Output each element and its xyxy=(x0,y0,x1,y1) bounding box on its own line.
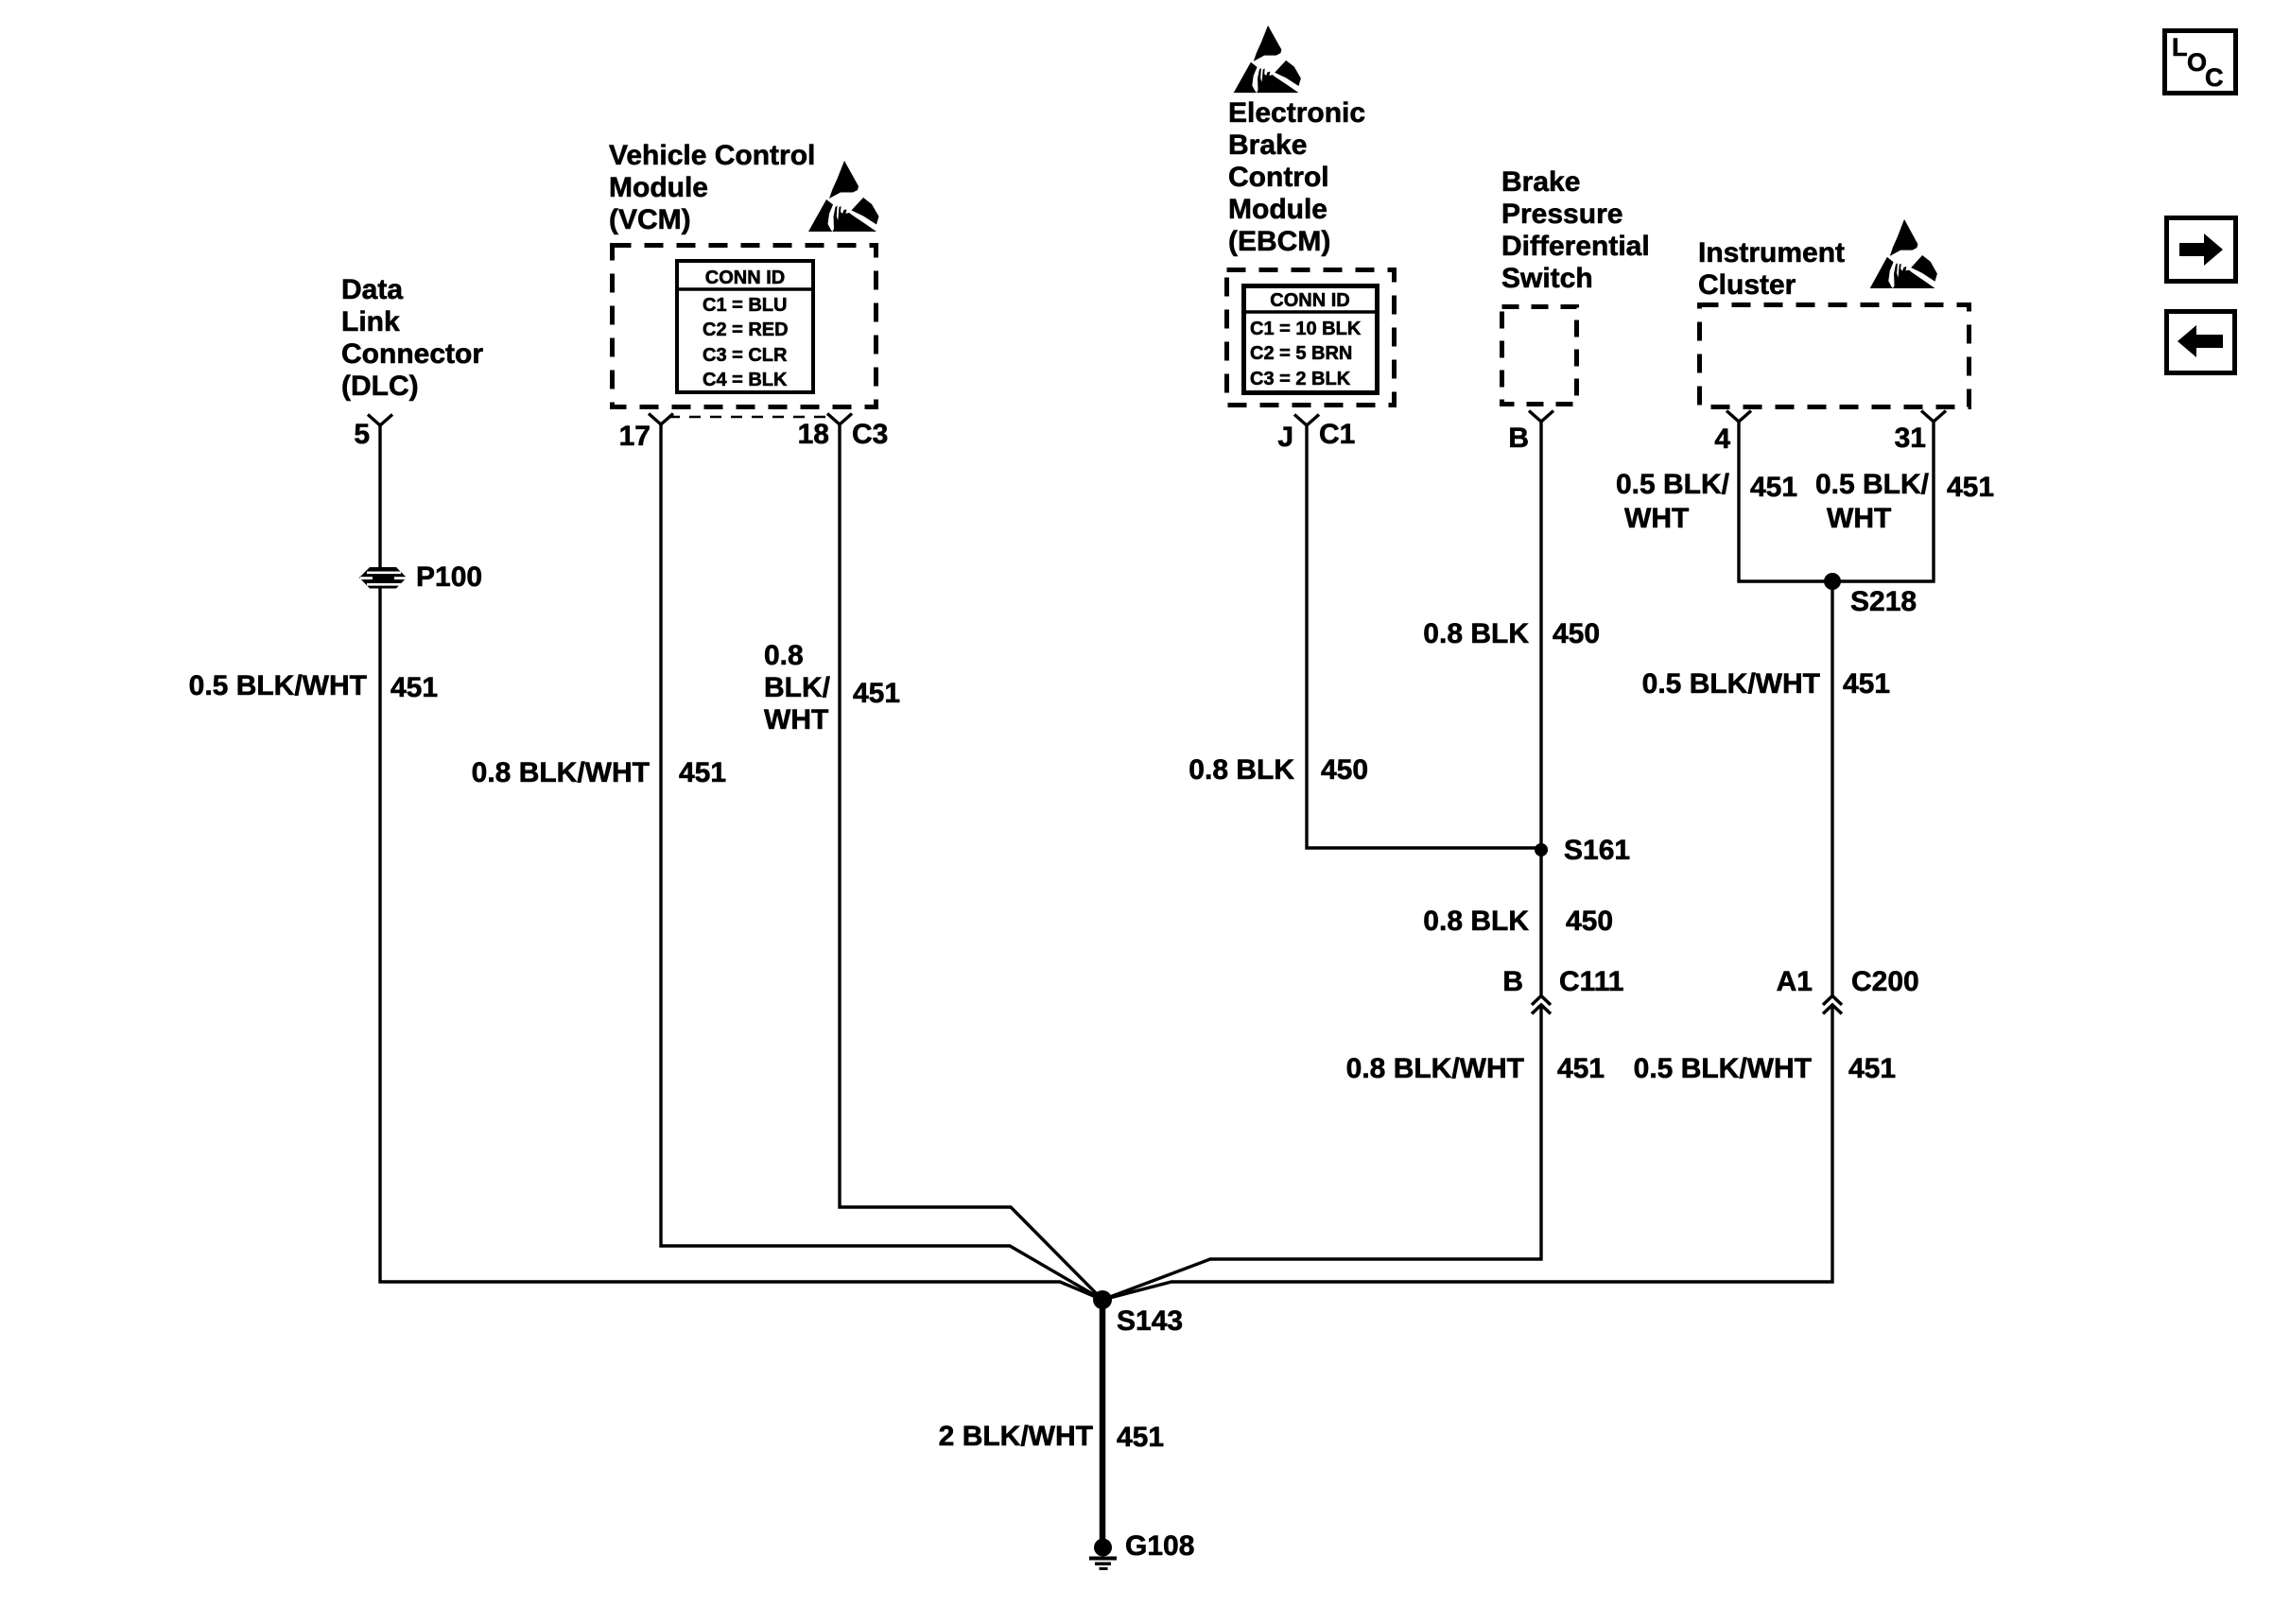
wire S143 to G108 xyxy=(1100,1300,1106,1540)
wire label 0.8 BLK 450 (switch) xyxy=(1423,618,1529,650)
connector P100 xyxy=(359,567,407,589)
node VCM title xyxy=(609,140,815,236)
connector C200 chevrons xyxy=(1823,996,1842,1014)
pin 18 connector Y xyxy=(827,414,852,425)
left arrow box xyxy=(2167,312,2235,373)
pin label 31 xyxy=(1895,423,1926,455)
wire label 0.8 BLK/WHT (pin18) xyxy=(764,640,830,736)
LOC letters xyxy=(2172,33,2188,61)
wire VCM pin18 to S143 xyxy=(840,424,1102,1300)
pin J connector Y xyxy=(1294,415,1319,426)
wire label 0.8 BLK/WHT 451 (below C111) xyxy=(1346,1053,1524,1085)
pin label 17 xyxy=(619,421,651,453)
connector label C1 xyxy=(1319,419,1355,451)
wire VCM pin17 to S143 xyxy=(661,424,1102,1300)
wire label 2 BLK/WHT 451 (ground wire) xyxy=(939,1421,1093,1453)
pin label B (C111) xyxy=(1502,966,1523,998)
connector C111 chevrons xyxy=(1532,996,1551,1014)
connector label C3 xyxy=(852,419,888,451)
ground label G108 xyxy=(1125,1530,1194,1563)
connector label C200 xyxy=(1851,966,1919,998)
wire label 0.5 BLK/WHT 451 (below C200) xyxy=(1634,1053,1812,1085)
wire label 0.5 BLK/WHT (pin31) xyxy=(1815,469,1929,501)
splice label S161 xyxy=(1564,835,1630,867)
wire label 0.5 BLK/WHT (pin4) xyxy=(1616,469,1729,501)
wire cluster pin4 to S218 xyxy=(1739,422,1832,581)
Instrument Cluster dashed box xyxy=(1700,305,1969,407)
wire DLC pin5 to S143 xyxy=(380,425,1102,1300)
ESD symbol VCM xyxy=(808,161,879,232)
node DLC title xyxy=(341,274,483,403)
wire Switch pinB to C111 xyxy=(1539,422,1542,995)
wire C111 to S143 xyxy=(1102,1006,1541,1300)
wire label 0.8 BLK 450 (below S161) xyxy=(1423,906,1529,938)
VCM module dashed box xyxy=(613,246,876,407)
EBCM CONN ID header xyxy=(1243,288,1377,313)
wire label 0.8 BLK 450 (EBCM) xyxy=(1189,754,1294,786)
LOC reference box xyxy=(2165,31,2236,94)
splice label S218 xyxy=(1850,586,1917,618)
VCM connector face dashed line xyxy=(668,416,829,419)
pin 4 connector Y xyxy=(1726,411,1751,423)
pin label 4 xyxy=(1714,423,1730,456)
pin B connector Y xyxy=(1529,411,1553,423)
splice S161 xyxy=(1535,843,1548,856)
wire S218 to C200 xyxy=(1831,581,1833,995)
node Switch title xyxy=(1501,166,1650,295)
pin label 5 xyxy=(354,419,370,451)
label P100 xyxy=(416,561,482,594)
wire label 451 (pin18) xyxy=(853,678,900,710)
wire EBCM pinJ to S161 xyxy=(1307,425,1541,848)
wire cluster pin31 to S218 xyxy=(1832,422,1934,581)
pin label 18 xyxy=(798,419,829,451)
wire label 0.5 BLK/WHT 451 (DLC) xyxy=(189,670,367,702)
ESD symbol EBCM xyxy=(1234,26,1301,93)
splice S218 xyxy=(1824,573,1841,590)
wire label 0.5 BLK/WHT 451 (below S218) xyxy=(1642,668,1820,700)
wire label 451 (pin4) xyxy=(1750,472,1797,504)
right arrow box xyxy=(2167,218,2236,282)
VCM CONN ID table xyxy=(675,261,815,392)
pin label J xyxy=(1277,422,1293,454)
EBCM CONN ID table xyxy=(1241,286,1379,393)
pin 31 connector Y xyxy=(1921,411,1946,423)
EBCM module dashed box xyxy=(1227,270,1395,406)
wire label 0.8 BLK/WHT 451 (pin17) xyxy=(472,757,650,789)
splice label S143 xyxy=(1117,1305,1183,1338)
node Instrument Cluster title xyxy=(1698,237,1845,302)
Switch module dashed box xyxy=(1502,307,1577,405)
pin label A1 xyxy=(1777,966,1813,998)
pin 5 connector Y xyxy=(368,415,392,426)
VCM CONN ID rows xyxy=(703,293,789,392)
pin 17 connector Y xyxy=(649,414,673,425)
wire label 451 (pin31) xyxy=(1947,472,1994,504)
VCM CONN ID header xyxy=(677,266,813,290)
pin label B (switch) xyxy=(1508,423,1529,455)
splice S143 xyxy=(1093,1290,1112,1309)
ESD symbol Instrument Cluster xyxy=(1870,219,1937,288)
node EBCM title xyxy=(1228,97,1365,258)
ground G108 xyxy=(1089,1539,1117,1571)
wire C200 to S143 xyxy=(1102,1006,1832,1300)
EBCM CONN ID rows xyxy=(1250,317,1361,391)
connector label C111 xyxy=(1559,966,1623,998)
